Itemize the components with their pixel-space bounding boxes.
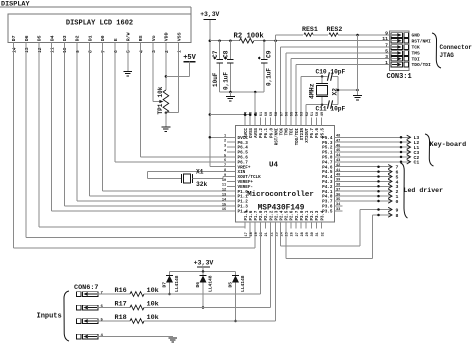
wire	[313, 34, 328, 36]
ground (crystal / JTAG)	[353, 96, 362, 100]
svg-text:61: 61	[260, 112, 264, 116]
brace key-board	[425, 134, 434, 166]
ground (input row 4)	[168, 338, 177, 342]
svg-text:1: 1	[177, 50, 183, 53]
svg-text:32k: 32k	[196, 181, 208, 188]
svg-text:0,1uF: 0,1uF	[223, 72, 230, 90]
resistor RES1	[302, 26, 318, 37]
svg-text:51: 51	[311, 112, 315, 116]
svg-text:P5.7: P5.7	[311, 127, 315, 137]
svg-text:P5.6: P5.6	[316, 127, 320, 137]
ground (TP1 bottom)	[162, 113, 171, 132]
svg-text:R16: R16	[115, 287, 127, 295]
svg-text:Inputs: Inputs	[37, 313, 62, 321]
svg-text:D1: D1	[87, 35, 93, 41]
wire led driver 5	[343, 174, 399, 180]
wire D7 wire P1.7	[14, 43, 256, 248]
svg-text:46: 46	[336, 144, 340, 148]
svg-text:11: 11	[222, 184, 226, 188]
svg-text:17: 17	[245, 232, 249, 236]
svg-text:4MHz: 4MHz	[309, 83, 316, 99]
svg-text:10: 10	[222, 179, 226, 183]
svg-text:2: 2	[224, 140, 226, 144]
svg-text:3: 3	[385, 54, 388, 60]
svg-text:AVSS: AVSS	[255, 127, 259, 137]
U4 right pins 48-33	[335, 135, 343, 213]
svg-text:D5: D5	[228, 282, 234, 288]
wire key-board L2	[343, 140, 420, 146]
svg-text:GND: GND	[412, 33, 421, 39]
wire led driver 2	[343, 189, 399, 195]
wire AVSS riser	[254, 92, 257, 118]
svg-text:JTAG: JTAG	[440, 52, 455, 59]
svg-text:0,1uF: 0,1uF	[266, 68, 273, 86]
wire XOUT	[193, 177, 227, 179]
svg-text:6: 6	[113, 50, 119, 53]
svg-text:XT2IN: XT2IN	[301, 127, 305, 140]
svg-text:TCK: TCK	[412, 45, 421, 51]
svg-text:2: 2	[164, 50, 170, 53]
wire JTAG signal 1	[281, 47, 390, 118]
svg-text:26: 26	[291, 232, 295, 236]
svg-text:45: 45	[336, 149, 340, 153]
wire led driver 0	[343, 199, 399, 205]
svg-text:R2 100k: R2 100k	[234, 33, 265, 41]
svg-text:10k: 10k	[147, 301, 159, 309]
microcontroller U4 MSP430F149	[236, 126, 335, 223]
svg-text:7: 7	[224, 164, 226, 168]
svg-text:D2: D2	[75, 35, 81, 41]
svg-text:Connector: Connector	[440, 44, 473, 51]
svg-text:R/W: R/W	[126, 32, 132, 41]
label Led driver	[404, 187, 444, 194]
U4 left pins 1-16	[222, 135, 236, 213]
wire key-board L1	[343, 145, 420, 151]
svg-text:C10 10pF: C10 10pF	[316, 69, 346, 76]
crystal X1 32k	[182, 169, 208, 189]
svg-text:6: 6	[224, 159, 226, 163]
svg-text:9: 9	[385, 31, 388, 37]
svg-text:11: 11	[50, 47, 56, 53]
svg-text:VDD: VDD	[164, 32, 170, 41]
svg-text:3: 3	[224, 145, 226, 149]
svg-text:0: 0	[396, 199, 399, 205]
svg-text:10k: 10k	[147, 314, 159, 322]
svg-text:10uF: 10uF	[212, 72, 219, 87]
wire RST net to JTAG pin 11	[254, 39, 390, 42]
connector CON3 JTAG	[390, 31, 410, 71]
svg-text:D5: D5	[37, 35, 43, 41]
svg-text:RST/NMI: RST/NMI	[412, 38, 432, 44]
svg-text:P1.5: P1.5	[245, 210, 249, 220]
svg-text:P3.2: P3.2	[311, 210, 315, 220]
svg-text:R18: R18	[115, 314, 127, 322]
svg-text:Microcontroller: Microcontroller	[247, 191, 314, 199]
svg-text:27: 27	[296, 232, 300, 236]
svg-text:14: 14	[11, 47, 17, 53]
label Key-board	[430, 141, 467, 149]
wire D2 wire P1.2	[77, 43, 227, 201]
svg-text:13: 13	[222, 194, 226, 198]
svg-text:DISPLAY LCD 1602: DISPLAY LCD 1602	[66, 20, 133, 28]
svg-text:P6.1: P6.1	[265, 127, 269, 137]
svg-text:P2.2: P2.2	[270, 210, 274, 220]
svg-text:DVSS: DVSS	[250, 127, 254, 137]
svg-text:35: 35	[336, 198, 340, 202]
svg-text:TDI: TDI	[412, 56, 421, 62]
wire D5 wire P1.5	[39, 43, 245, 229]
diode D5 LL4148	[228, 272, 246, 323]
svg-text:9: 9	[75, 50, 81, 53]
svg-text:4: 4	[138, 50, 144, 53]
svg-text:TMS: TMS	[412, 51, 421, 57]
svg-text:P2.7: P2.7	[296, 210, 300, 220]
svg-text:P3.4: P3.4	[321, 210, 325, 220]
wire key-board C3	[343, 150, 420, 156]
wire AVCC	[210, 113, 252, 117]
svg-text:52: 52	[306, 112, 310, 116]
svg-text:TDO/TDI: TDO/TDI	[412, 62, 432, 68]
ground (LCD R/W pin 5)	[123, 43, 132, 76]
svg-text:12: 12	[37, 47, 43, 53]
svg-text:+3,3V: +3,3V	[200, 11, 219, 18]
svg-text:37: 37	[336, 188, 340, 192]
svg-text:P2.6: P2.6	[291, 210, 295, 220]
wire E wire P6.7	[115, 43, 227, 162]
svg-text:10: 10	[62, 47, 68, 53]
resistor RES2	[327, 26, 343, 37]
power +5V	[166, 54, 197, 77]
capacitor C8 0.1uF	[223, 41, 234, 92]
svg-text:53: 53	[301, 112, 305, 116]
svg-text:5: 5	[224, 154, 226, 158]
U4 top pin labels	[245, 127, 325, 145]
svg-text:49: 49	[321, 112, 325, 116]
svg-text:P2.3: P2.3	[275, 210, 279, 220]
wire RS wire P6.6	[141, 43, 228, 157]
svg-text:P1.7: P1.7	[255, 210, 259, 220]
wire +3.3V vertical to DVCC and VREF+	[209, 20, 227, 167]
crystal X2 4MHz	[309, 77, 339, 105]
resistor R2 100k	[234, 33, 265, 43]
svg-text:8: 8	[224, 169, 226, 173]
svg-text:3: 3	[151, 50, 157, 53]
svg-text:21: 21	[265, 232, 269, 236]
wire led driver 4	[343, 179, 399, 185]
svg-text:8: 8	[396, 213, 399, 219]
wire JTAG signal 4	[296, 65, 390, 118]
brace inputs	[64, 291, 69, 341]
svg-text:P3.1: P3.1	[306, 210, 310, 220]
brace led driver	[401, 163, 408, 218]
wire D3 wire P1.3	[64, 43, 227, 206]
svg-text:P2.0: P2.0	[260, 210, 264, 220]
svg-text:P6.2: P6.2	[260, 127, 264, 137]
svg-text:TDI: TDI	[291, 127, 295, 135]
svg-text:43: 43	[336, 159, 340, 163]
svg-text:D4: D4	[49, 35, 55, 41]
svg-text:CON6:7: CON6:7	[74, 284, 98, 292]
svg-text:RES1: RES1	[302, 26, 318, 33]
svg-text:10k: 10k	[147, 287, 159, 295]
svg-text:D3: D3	[62, 35, 68, 41]
svg-text:13: 13	[24, 47, 30, 53]
wire key-board L3	[343, 135, 420, 141]
wire led driver 8	[286, 213, 399, 259]
diode D7 LL4148	[162, 272, 180, 296]
svg-text:56: 56	[285, 112, 289, 116]
svg-text:Key-board: Key-board	[430, 141, 467, 149]
wire VSS to TP1 bottom	[165, 43, 179, 114]
wire diode supply rail	[170, 270, 236, 273]
wire key-board C2	[343, 155, 420, 161]
svg-text:29: 29	[306, 232, 310, 236]
svg-text:C1: C1	[414, 160, 420, 166]
resistor R17 10k	[98, 229, 271, 310]
potentiometer TP1 10k	[157, 86, 169, 114]
svg-text:38: 38	[336, 184, 340, 188]
svg-text:42: 42	[336, 164, 340, 168]
svg-text:LL4148: LL4148	[174, 275, 180, 292]
svg-text:31: 31	[316, 232, 320, 236]
svg-text:VSS: VSS	[176, 32, 182, 41]
svg-text:39: 39	[336, 179, 340, 183]
svg-text:P3.0: P3.0	[301, 210, 305, 220]
diode D6 LL4148	[195, 272, 213, 309]
svg-text:+3,3V: +3,3V	[194, 260, 214, 267]
wire RST/NMI riser	[276, 35, 303, 118]
power +3.3V (bottom)	[194, 260, 214, 272]
wire led driver 7	[343, 165, 399, 171]
svg-text:18: 18	[250, 232, 254, 236]
svg-text:RST/NMI: RST/NMI	[274, 127, 279, 145]
connector JTAG pin numbers and labels	[382, 31, 431, 69]
svg-text:5: 5	[126, 50, 132, 53]
svg-text:D0: D0	[100, 35, 106, 41]
svg-text:Led driver: Led driver	[404, 187, 444, 194]
wire to JTAG GND pin 9	[338, 34, 390, 37]
svg-text:9: 9	[224, 174, 226, 178]
svg-text:P5.5: P5.5	[321, 127, 325, 137]
svg-text:RES2: RES2	[327, 26, 343, 33]
svg-text:C11 10pF: C11 10pF	[316, 106, 346, 113]
capacitor C11 10pF	[316, 100, 346, 112]
svg-text:11: 11	[382, 36, 388, 42]
connector CON6 inputs	[77, 292, 99, 339]
display module U3 DISPLAY LCD 1602	[8, 14, 191, 43]
svg-text:RS: RS	[138, 35, 144, 41]
wire XIN loop	[148, 172, 227, 179]
wire JTAG signal 2	[286, 53, 390, 118]
svg-text:C7: C7	[212, 50, 219, 58]
svg-text:D6: D6	[195, 282, 201, 288]
U4 bottom pin labels	[245, 210, 325, 220]
wire JTAG ground riser	[357, 35, 359, 96]
svg-text:7: 7	[100, 50, 106, 53]
svg-text:55: 55	[291, 112, 295, 116]
svg-text:X1: X1	[196, 169, 204, 176]
svg-text:28: 28	[301, 232, 305, 236]
wire D6 wire P1.6	[26, 43, 250, 238]
svg-text:30: 30	[311, 232, 315, 236]
wire led driver 6	[343, 169, 399, 175]
svg-text:U4: U4	[269, 162, 279, 170]
wire D4 wire P1.4	[52, 43, 227, 211]
label CON3:1	[387, 73, 412, 81]
wire JTAG signal 3	[291, 59, 390, 118]
svg-text:60: 60	[265, 112, 269, 116]
svg-text:10k: 10k	[157, 86, 164, 97]
svg-text:50: 50	[316, 112, 320, 116]
svg-text:P2.1: P2.1	[265, 210, 269, 220]
svg-text:C9: C9	[266, 50, 273, 58]
svg-text:19: 19	[255, 232, 259, 236]
svg-text:8: 8	[88, 50, 94, 53]
U4 bottom pins 17-32	[245, 222, 325, 237]
svg-text:XT2OUT: XT2OUT	[306, 127, 310, 142]
wire Vo to TP1 wiper	[153, 43, 163, 104]
svg-text:15: 15	[222, 203, 226, 207]
svg-text:1: 1	[385, 60, 388, 66]
svg-text:TMS: TMS	[286, 127, 290, 135]
svg-text:TP1: TP1	[157, 103, 164, 114]
svg-text:P6.0: P6.0	[270, 127, 274, 137]
svg-text:+5V: +5V	[183, 54, 196, 62]
svg-text:1: 1	[224, 135, 226, 139]
svg-text:48: 48	[336, 135, 340, 139]
power +3.3V (top)	[200, 11, 219, 20]
svg-text:63: 63	[250, 112, 254, 116]
wire led driver 3	[343, 184, 399, 190]
svg-text:7: 7	[385, 43, 388, 49]
svg-text:40: 40	[336, 174, 340, 178]
svg-text:TDO/TDI: TDO/TDI	[295, 127, 300, 145]
brace JTAG	[432, 33, 441, 68]
svg-text:16: 16	[222, 208, 226, 212]
svg-text:62: 62	[255, 112, 259, 116]
svg-text:P1.6: P1.6	[250, 210, 254, 220]
connector CON6 pin numbers	[101, 292, 104, 339]
svg-text:36: 36	[336, 193, 340, 197]
svg-text:R17: R17	[115, 301, 127, 309]
capacitor C10 10pF	[316, 69, 346, 81]
wire D1 wire P1.1	[90, 43, 227, 197]
wire led driver 1	[343, 194, 399, 200]
label CON6:7	[74, 284, 98, 292]
svg-text:E: E	[113, 38, 119, 41]
label Connector JTAG	[440, 44, 473, 59]
U4 right pin labels	[322, 136, 333, 215]
wire VDD net	[165, 43, 168, 90]
wire XT2IN to C10	[301, 75, 338, 117]
svg-text:D7: D7	[162, 282, 168, 288]
resistor R16 10k	[98, 229, 260, 297]
svg-text:5: 5	[385, 49, 388, 55]
svg-text:58: 58	[275, 112, 279, 116]
svg-text:41: 41	[336, 169, 340, 173]
wire capacitor ground rail	[220, 91, 265, 94]
svg-text:47: 47	[336, 139, 340, 143]
svg-text:AVCC: AVCC	[245, 127, 249, 137]
svg-text:57: 57	[280, 112, 284, 116]
wire led driver 9	[281, 207, 399, 246]
svg-text:C8: C8	[223, 50, 230, 58]
svg-text:P3.3: P3.3	[316, 210, 320, 220]
svg-text:LL4148: LL4148	[240, 275, 246, 292]
svg-text:Vo: Vo	[151, 35, 157, 41]
svg-text:33: 33	[336, 208, 340, 212]
svg-text:TCK: TCK	[281, 127, 285, 135]
wire key-board C1	[343, 160, 420, 166]
display LCD pins 1-14	[11, 32, 182, 53]
wire input 4 to ground	[98, 336, 173, 338]
svg-text:59: 59	[270, 112, 274, 116]
wire D0 wire P1.0	[102, 43, 227, 192]
svg-text:12: 12	[222, 189, 226, 193]
svg-text:9: 9	[396, 207, 399, 213]
label Inputs	[37, 313, 62, 321]
svg-text:P2.5: P2.5	[286, 210, 290, 220]
capacitor C7 10uF	[212, 41, 223, 92]
resistor R18 10k	[98, 229, 276, 324]
svg-text:P2.4: P2.4	[281, 210, 285, 220]
svg-text:LL4148: LL4148	[207, 275, 213, 292]
capacitor C9 0.1uF	[258, 41, 272, 92]
U4 left pin labels	[238, 136, 262, 215]
wire crystal ground	[337, 77, 359, 105]
wire +3.3V rail	[210, 39, 240, 42]
svg-text:D7: D7	[11, 35, 17, 41]
svg-text:32: 32	[321, 232, 325, 236]
svg-text:D6: D6	[24, 35, 30, 41]
U4 top pins 64-49	[245, 111, 326, 125]
sheet title DISPLAY	[0, 0, 191, 14]
wire XT2OUT to C11	[306, 103, 338, 117]
ground (capacitor rail)	[226, 92, 235, 101]
svg-text:CON3:1: CON3:1	[387, 73, 412, 81]
